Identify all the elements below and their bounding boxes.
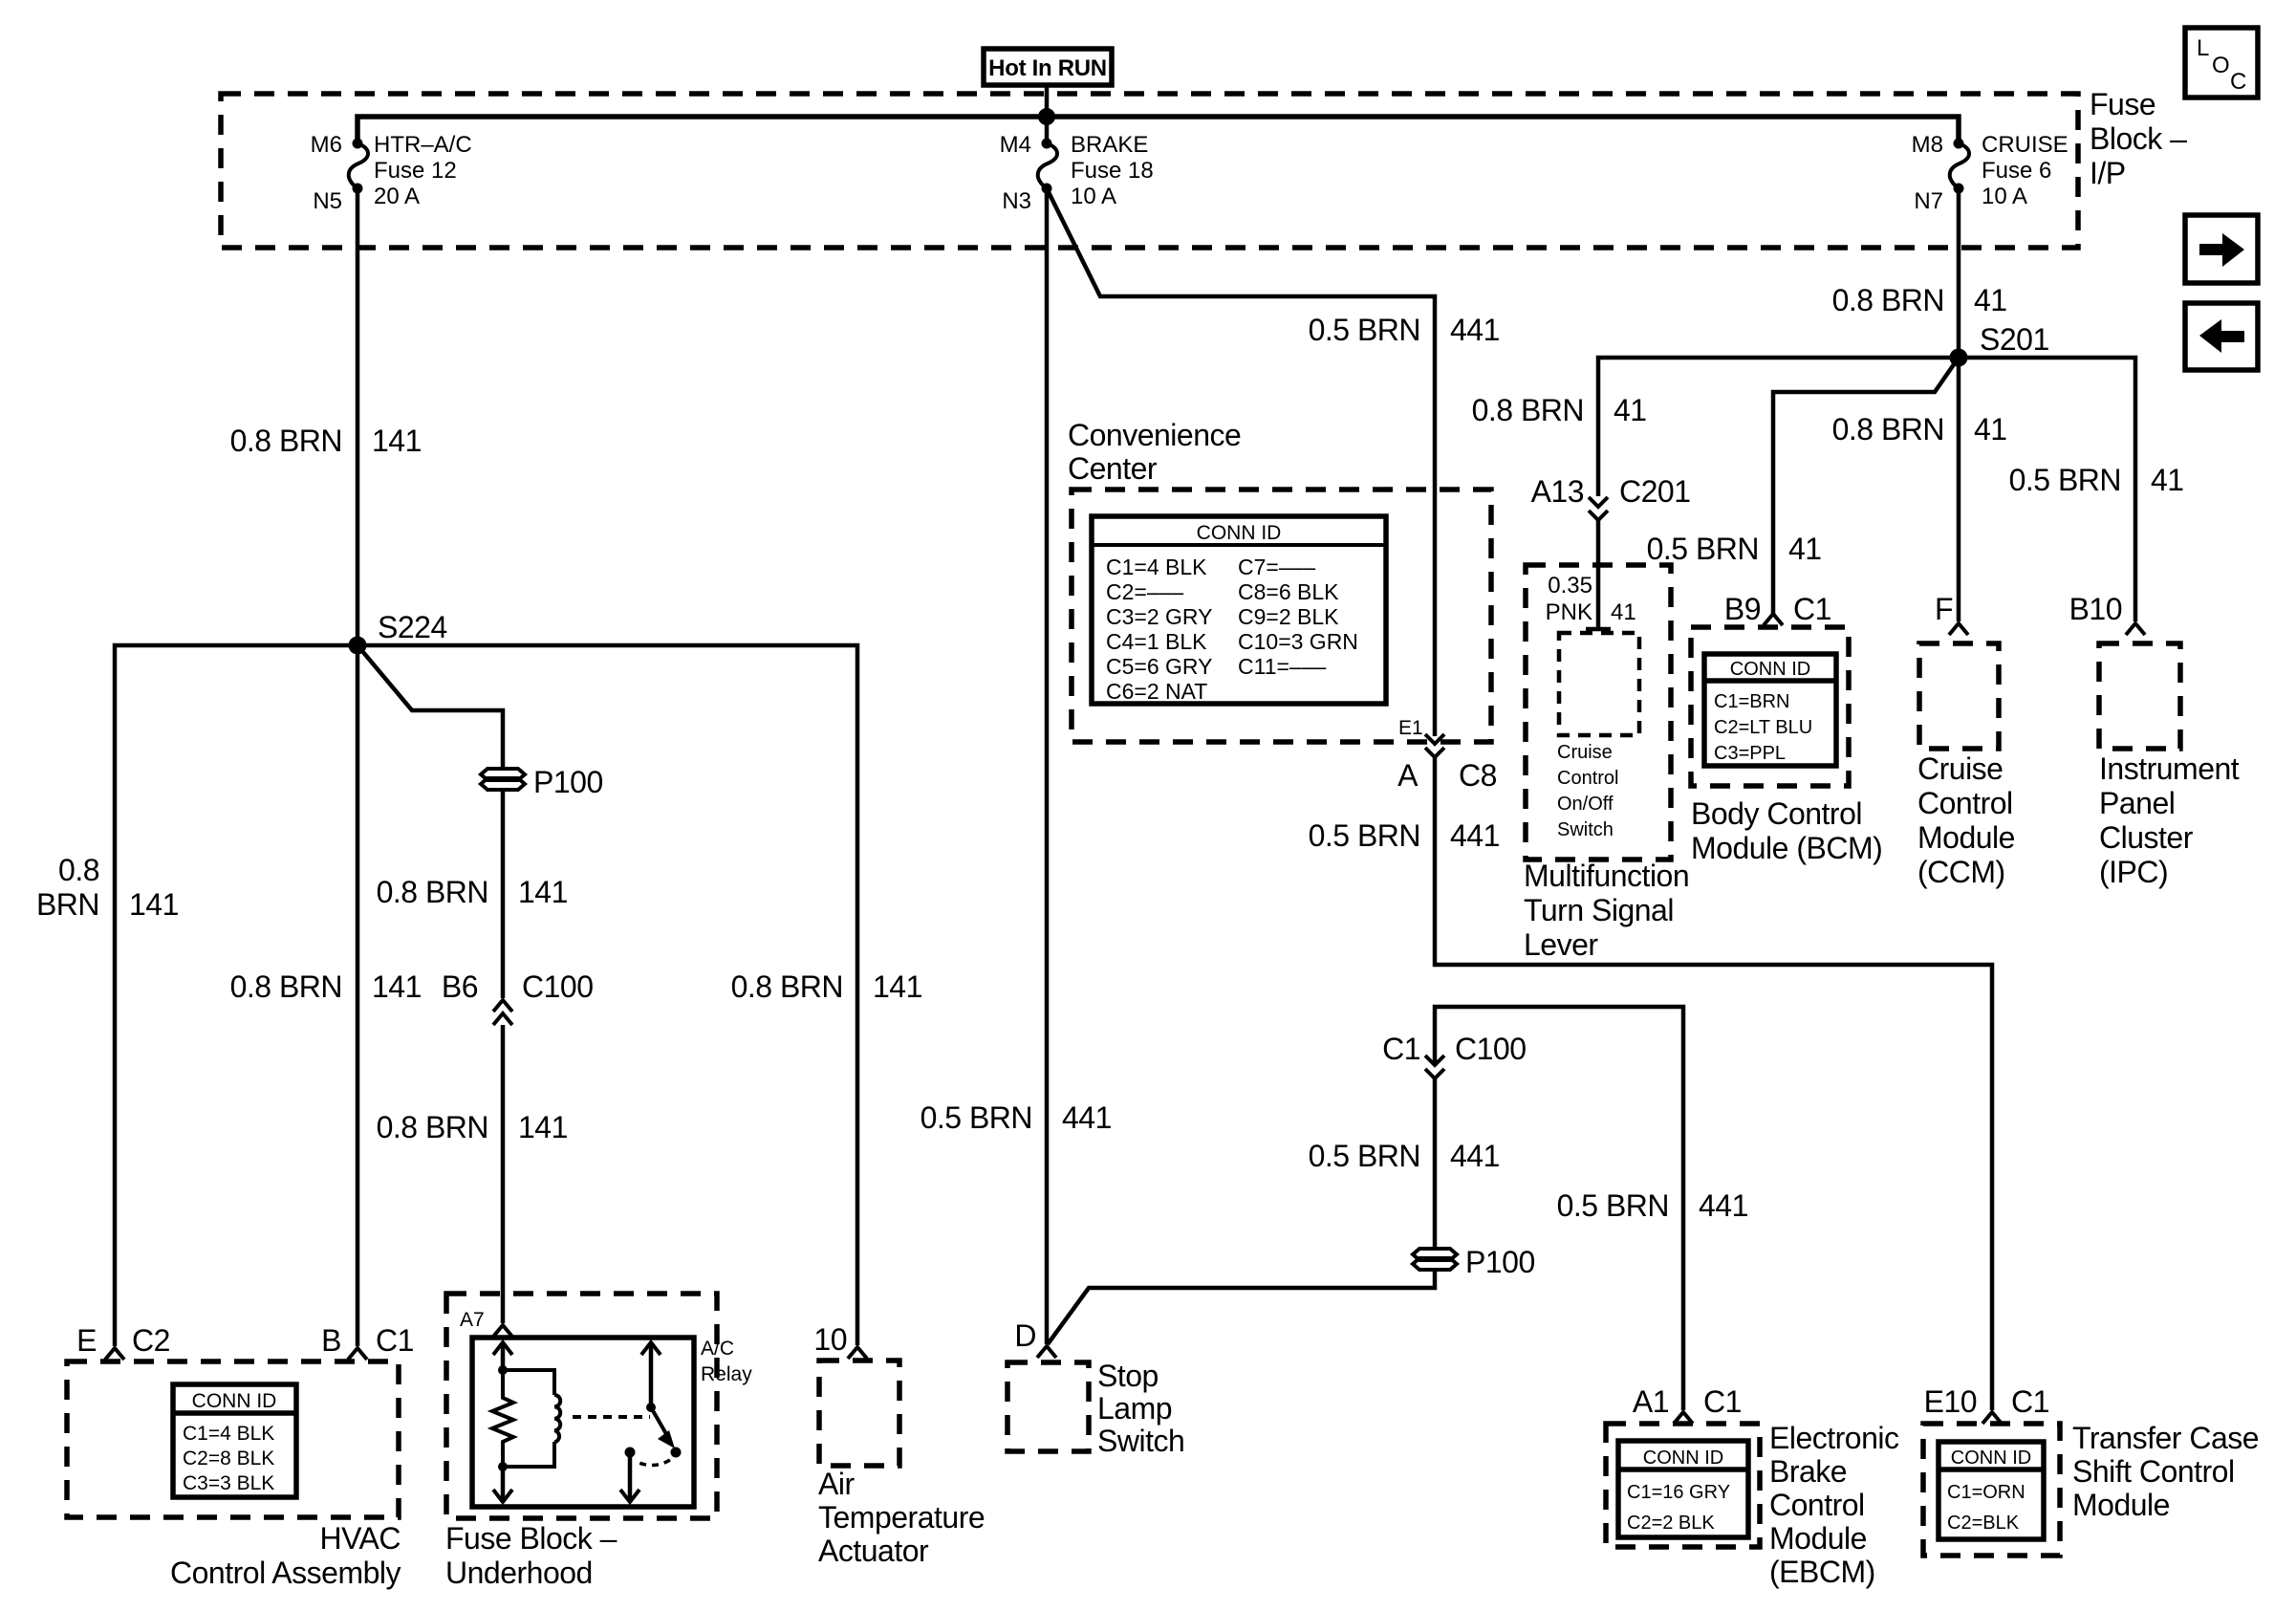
svg-text:CONN ID: CONN ID [1197,522,1282,544]
fuse BRAKE Fuse 18 (M4-N3) [1038,139,1057,194]
label 0.8 BRN 141 (left branch, two lines) [36,853,179,922]
wire S224 right branch to Air Temperature Actuator [357,645,857,1345]
fuse CRUISE Fuse 6 (M8-N7) [1950,139,1969,194]
svg-text:Hot In RUN: Hot In RUN [988,55,1107,81]
svg-text:C3=2 GRY: C3=2 GRY [1106,604,1212,629]
label 0.8 BRN 141 (B wire) [230,969,422,1004]
svg-text:M6: M6 [311,132,342,158]
transfer case CONN ID table [1939,1442,2044,1539]
svg-text:Temperature: Temperature [818,1500,985,1535]
svg-text:P100: P100 [533,765,603,799]
svg-text:(EBCM): (EBCM) [1769,1555,1875,1589]
label Cruise Control On/Off Switch [1557,742,1618,840]
connector B9 / C1 (BCM) [1724,592,1831,626]
label HTR-A/C Fuse 12 20 A [374,132,472,209]
svg-text:Cruise: Cruise [1917,751,2003,786]
svg-text:CONN ID: CONN ID [192,1390,277,1412]
svg-text:41: 41 [1974,412,2007,446]
label 0.8 BRN 141 (P100 wire) [377,875,568,909]
wire bus drop to M4 [1045,117,1050,143]
svg-text:0.8: 0.8 [58,853,99,887]
svg-text:Module (BCM): Module (BCM) [1691,831,1882,865]
node S224 [349,610,447,655]
connector E / C2 (HVAC) [76,1323,170,1360]
svg-text:E: E [76,1323,97,1358]
wire S201 down to CCM F [1957,358,1961,621]
svg-text:0.5 BRN: 0.5 BRN [921,1100,1032,1135]
svg-text:S201: S201 [1980,322,2049,357]
svg-text:Air: Air [818,1467,855,1501]
wire N3 diagonal branch to convenience center [1047,188,1435,736]
legend LOC box [2185,28,2258,98]
svg-text:N7: N7 [1914,188,1943,214]
wire C100 down to A7 [501,1025,506,1323]
svg-text:20 A: 20 A [374,184,420,209]
svg-text:HVAC: HVAC [319,1521,401,1556]
svg-text:B9: B9 [1724,592,1761,626]
svg-text:Control: Control [1557,768,1618,789]
node Hot In RUN (power feed box) [984,49,1112,85]
svg-text:Panel: Panel [2099,786,2175,820]
connector C1 / C100 (double chevron down) [1382,1032,1526,1078]
svg-text:Cluster: Cluster [2099,820,2194,855]
svg-text:N3: N3 [1002,188,1031,214]
svg-text:C: C [2230,69,2246,95]
label 0.35 PNK 41 [1546,573,1636,625]
svg-text:M4: M4 [1000,132,1031,158]
wire S224 diagonal branch to P100 [357,645,503,769]
svg-text:C8=6 BLK: C8=6 BLK [1238,579,1339,604]
label 0.5 BRN 41 (B9 wire) [1647,532,1822,566]
legend left-arrow box [2185,303,2258,370]
wire bus inside fuse block [357,117,1959,143]
svg-text:C2=8 BLK: C2=8 BLK [183,1448,274,1469]
svg-text:P100: P100 [1465,1245,1535,1279]
wire C100 up and right to EBCM branch [1435,1007,1683,1410]
convenience center dashed box [1072,490,1491,742]
svg-text:C8: C8 [1459,758,1497,793]
svg-text:10 A: 10 A [1071,184,1116,209]
legend right-arrow box [2185,215,2258,283]
svg-text:0.5 BRN: 0.5 BRN [2009,463,2121,497]
fuse block I/P dashed enclosure [221,94,2078,248]
connector F (CCM) [1935,592,1968,635]
cruise control on/off switch inner dashed box [1559,633,1639,735]
svg-text:(CCM): (CCM) [1917,855,2005,889]
svg-text:C1=BRN: C1=BRN [1714,691,1789,712]
svg-text:10 A: 10 A [1982,184,2027,209]
connector E10 / C1 (transfer case module) [1924,1384,2049,1424]
A/C relay box [472,1338,694,1507]
connector B6 / C100 (double chevron up) [442,969,594,1025]
svg-text:C3=PPL: C3=PPL [1714,743,1786,764]
svg-text:41: 41 [1974,283,2007,317]
svg-text:Actuator: Actuator [818,1534,929,1568]
label 0.8 BRN 141 (air temp wire) [731,969,922,1004]
svg-text:CONN ID: CONN ID [1643,1448,1723,1469]
svg-text:F: F [1935,592,1953,626]
label A/C Relay [701,1338,752,1385]
svg-text:Convenience: Convenience [1068,418,1241,452]
connector E1 at convenience center edge (double chevron down) [1398,717,1444,757]
svg-text:CONN ID: CONN ID [1730,659,1810,680]
svg-text:441: 441 [1062,1100,1112,1135]
connector B10 (IPC) [2069,592,2145,635]
label Instrument Panel Cluster (IPC) [2099,751,2240,889]
relay movable contact with arrow [651,1407,682,1458]
label 0.5 BRN 41 (B10 wire) [2009,463,2184,497]
svg-text:A: A [1397,758,1419,793]
wire P100 down to B6 connector [501,790,506,998]
fuse HTR-A/C Fuse 12 (M6-N5) [349,139,368,194]
svg-text:O: O [2212,53,2230,78]
svg-text:C1: C1 [1703,1384,1742,1419]
svg-text:C4=1 BLK: C4=1 BLK [1106,629,1207,654]
junction dot at bus/M4 [1038,108,1055,125]
label 0.5 BRN 441 (EBCM wire) [1557,1188,1748,1223]
svg-text:S224: S224 [378,610,447,644]
svg-text:C2=LT BLU: C2=LT BLU [1714,717,1812,738]
connector B / C1 (HVAC) [321,1323,414,1360]
grommet P100 (first) [481,765,603,799]
svg-text:441: 441 [1450,1139,1500,1173]
connector A7 (fuse block underhood) [460,1309,512,1337]
CCM dashed box [1919,643,1999,749]
svg-text:Multifunction: Multifunction [1524,859,1689,893]
svg-text:0.5 BRN: 0.5 BRN [1309,313,1420,347]
wire S201 diagonal branch to BCM B9 [1773,358,1959,614]
multifunction turn signal lever dashed box [1526,565,1671,860]
HVAC CONN ID table [173,1384,296,1497]
svg-text:C201: C201 [1619,474,1691,509]
svg-text:C2=–––: C2=––– [1106,579,1183,604]
label 0.5 BRN 441 (feed into convenience center) [1309,313,1500,347]
wire P100 up to C100 connector [1433,1078,1438,1249]
BCM dashed box [1691,627,1849,786]
svg-text:(IPC): (IPC) [2099,855,2168,889]
svg-text:E1: E1 [1398,717,1423,739]
svg-text:41: 41 [1614,393,1647,427]
svg-text:0.8 BRN: 0.8 BRN [230,424,342,458]
svg-text:A13: A13 [1531,474,1584,509]
relay dashed travel arc [637,1460,670,1466]
svg-text:CONN ID: CONN ID [1951,1448,2031,1469]
svg-text:Switch: Switch [1557,819,1614,840]
svg-text:C11=–––: C11=––– [1238,654,1327,679]
label HVAC Control Assembly [170,1521,401,1590]
svg-text:Control: Control [1917,786,2013,820]
svg-text:C1=4 BLK: C1=4 BLK [1106,555,1207,579]
svg-text:Module: Module [1917,820,2015,855]
label Multifunction Turn Signal Lever [1524,859,1689,962]
svg-text:Fuse 6: Fuse 6 [1982,158,2051,184]
svg-text:0.8 BRN: 0.8 BRN [230,969,342,1004]
relay throw contact [620,1448,639,1503]
EBCM dashed box [1606,1424,1760,1547]
wire N3 down to stop lamp switch D [1045,188,1050,1344]
svg-text:B6: B6 [442,969,478,1004]
connector D (stop lamp switch) [1014,1318,1056,1358]
svg-text:141: 141 [873,969,922,1004]
svg-text:Module: Module [1769,1521,1867,1556]
svg-text:C2=2 BLK: C2=2 BLK [1627,1513,1715,1534]
svg-text:C1=16 GRY: C1=16 GRY [1627,1482,1730,1503]
svg-text:Lever: Lever [1524,927,1598,962]
svg-text:B: B [321,1323,341,1358]
label Body Control Module (BCM) [1691,796,1882,865]
svg-text:C6=2 NAT: C6=2 NAT [1106,679,1207,704]
wire C201 down into cruise switch with T end [1586,520,1611,629]
svg-text:Fuse 12: Fuse 12 [374,158,457,184]
svg-text:Center: Center [1068,451,1158,486]
wire S224 left branch to HVAC E [115,645,357,1346]
svg-text:Turn Signal: Turn Signal [1524,893,1674,927]
svg-text:41: 41 [2151,463,2184,497]
svg-text:441: 441 [1699,1188,1748,1223]
svg-text:0.35: 0.35 [1548,573,1592,599]
svg-text:C100: C100 [1455,1032,1527,1066]
connector A13 / C201 (double chevron down) [1531,474,1691,520]
svg-text:A/C: A/C [701,1338,734,1360]
svg-text:0.8 BRN: 0.8 BRN [731,969,843,1004]
label Stop Lamp Switch [1097,1359,1184,1458]
svg-text:Switch: Switch [1097,1424,1184,1458]
svg-text:0.5 BRN: 0.5 BRN [1309,818,1420,853]
svg-text:C1: C1 [1382,1032,1420,1066]
svg-text:441: 441 [1450,818,1500,853]
label 0.5 BRN 441 (stop lamp wire) [921,1100,1112,1135]
convenience center CONN ID table [1092,516,1386,704]
relay coil branch [503,1370,560,1467]
svg-text:141: 141 [129,887,179,922]
wire S224 down to HVAC B [356,645,360,1346]
IPC dashed box [2099,643,2180,749]
label Fuse Block - I/P [2090,87,2187,190]
label CRUISE Fuse 6 10 A [1982,132,2069,209]
svg-text:Fuse 18: Fuse 18 [1071,158,1154,184]
svg-text:C100: C100 [522,969,594,1004]
svg-text:441: 441 [1450,313,1500,347]
wire S201 right branch to IPC B10 [1959,358,2135,621]
EBCM CONN ID table [1618,1441,1748,1537]
connector A1 / C1 (EBCM) [1633,1384,1742,1424]
stop lamp switch dashed box [1007,1362,1089,1451]
relay dashed actuation link [573,1415,650,1419]
wire N5 down to S224 [356,188,360,645]
svg-text:C1: C1 [376,1323,414,1358]
svg-text:On/Off: On/Off [1557,794,1614,815]
svg-text:Brake: Brake [1769,1454,1847,1489]
svg-text:C10=3 GRN: C10=3 GRN [1238,629,1358,654]
svg-text:141: 141 [518,1110,568,1144]
relay resistor [492,1370,513,1467]
connector pin 10 (air temperature actuator) [813,1322,867,1359]
wire S201 left branch to C201 [1598,358,1959,496]
label BRAKE Fuse 18 10 A [1071,132,1154,209]
svg-text:0.8 BRN: 0.8 BRN [1832,283,1944,317]
svg-text:L: L [2197,35,2209,61]
wire A-C8 down then right to transfer case branch [1435,757,1992,1410]
wire Hot In RUN to bus [1045,86,1050,117]
label 0.8 BRN 41 (F wire) [1832,412,2007,446]
svg-text:M8: M8 [1912,132,1943,158]
svg-text:A1: A1 [1633,1384,1669,1419]
label 0.8 BRN 41 (C201 wire) [1472,393,1647,427]
svg-text:141: 141 [372,424,422,458]
svg-text:Cruise: Cruise [1557,742,1613,763]
svg-text:Lamp: Lamp [1097,1391,1172,1426]
svg-text:C1: C1 [2011,1384,2049,1419]
relay pin 1 line with arrows [493,1342,512,1375]
svg-text:C2: C2 [132,1323,170,1358]
svg-text:Control: Control [1769,1488,1865,1522]
svg-text:A7: A7 [460,1309,485,1331]
BCM CONN ID table [1704,654,1836,766]
svg-text:Module: Module [2072,1488,2170,1522]
label 0.8 BRN 141 (N5 wire) [230,424,422,458]
label 0.8 BRN 41 (N7 wire) [1832,283,2007,317]
svg-text:C7=–––: C7=––– [1238,555,1315,579]
relay bottom dot and arrow [493,1462,512,1502]
air temperature actuator dashed box [819,1361,899,1466]
svg-text:PNK: PNK [1546,599,1592,625]
svg-text:Underhood: Underhood [445,1556,593,1590]
svg-text:Stop: Stop [1097,1359,1159,1393]
relay switch common line [641,1342,661,1412]
svg-text:E10: E10 [1924,1384,1977,1419]
svg-text:141: 141 [372,969,422,1004]
svg-text:Body Control: Body Control [1691,796,1862,831]
svg-text:Control Assembly: Control Assembly [170,1556,401,1590]
HVAC Control Assembly dashed box [67,1361,399,1517]
svg-text:C9=2 BLK: C9=2 BLK [1238,604,1339,629]
svg-text:10: 10 [813,1322,847,1357]
node S201 [1950,322,2049,367]
svg-text:C3=3 BLK: C3=3 BLK [183,1472,274,1494]
fuse block underhood dashed box [446,1294,717,1518]
svg-text:Transfer Case: Transfer Case [2072,1421,2259,1455]
svg-text:0.8 BRN: 0.8 BRN [377,875,488,909]
svg-text:HTR–A/C: HTR–A/C [374,132,472,158]
svg-text:C1=ORN: C1=ORN [1947,1482,2025,1503]
label 0.8 BRN 141 (A7 wire) [377,1110,568,1144]
svg-text:D: D [1014,1318,1036,1353]
svg-text:Block –: Block – [2090,121,2187,156]
svg-text:0.8 BRN: 0.8 BRN [377,1110,488,1144]
svg-text:41: 41 [1611,599,1636,625]
svg-text:BRAKE: BRAKE [1071,132,1148,158]
svg-text:C1=4 BLK: C1=4 BLK [183,1423,274,1445]
wire stop lamp net: horizontal and up through P100/C100 [1048,1270,1435,1344]
svg-text:0.8 BRN: 0.8 BRN [1832,412,1944,446]
svg-text:N5: N5 [313,188,342,214]
wire N7 down to S201 [1957,188,1961,358]
label Air Temperature Actuator [818,1467,985,1568]
svg-text:0.5 BRN: 0.5 BRN [1647,532,1759,566]
pin A / C8 [1397,758,1497,793]
label 0.5 BRN 441 (between C100 and P100) [1309,1139,1500,1173]
svg-text:0.5 BRN: 0.5 BRN [1309,1139,1420,1173]
label Electronic Brake Control Module (EBCM) [1769,1421,1899,1589]
svg-text:0.8 BRN: 0.8 BRN [1472,393,1584,427]
label Cruise Control Module (CCM) [1917,751,2015,889]
svg-text:B10: B10 [2069,592,2122,626]
svg-text:BRN: BRN [36,887,99,922]
svg-text:Electronic: Electronic [1769,1421,1899,1455]
svg-text:C1: C1 [1793,592,1831,626]
svg-text:Fuse: Fuse [2090,87,2155,121]
transfer case shift control module dashed box [1923,1424,2060,1556]
svg-text:Fuse Block –: Fuse Block – [445,1521,617,1556]
label Transfer Case Shift Control Module [2072,1421,2259,1522]
svg-text:C5=6 GRY: C5=6 GRY [1106,654,1212,679]
svg-text:C2=BLK: C2=BLK [1947,1513,2020,1534]
grommet P100 (second) [1413,1245,1535,1279]
svg-text:141: 141 [518,875,568,909]
svg-text:0.5 BRN: 0.5 BRN [1557,1188,1669,1223]
svg-text:I/P: I/P [2090,156,2126,190]
svg-text:41: 41 [1788,532,1822,566]
svg-text:Shift Control: Shift Control [2072,1454,2235,1489]
label 0.5 BRN 441 (below C8) [1309,818,1500,853]
svg-text:Instrument: Instrument [2099,751,2240,786]
label Fuse Block - Underhood [445,1521,617,1590]
label Convenience Center [1068,418,1241,486]
svg-text:CRUISE: CRUISE [1982,132,2069,158]
svg-text:Relay: Relay [701,1363,752,1385]
